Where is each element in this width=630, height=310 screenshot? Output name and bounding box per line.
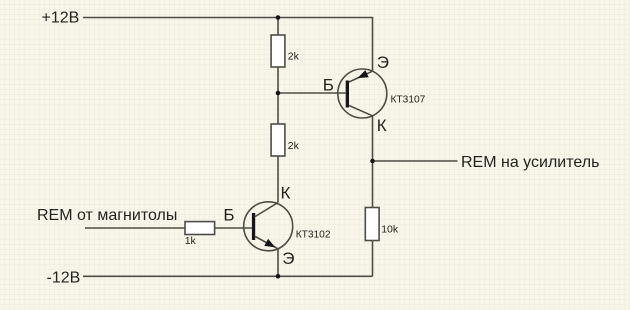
svg-text:REM на усилитель: REM на усилитель [461, 154, 599, 171]
svg-text:Э: Э [377, 53, 389, 72]
wire 10k bottom to -12V rail [372, 241, 374, 277]
wire base of U1 [278, 92, 346, 94]
svg-text:2k: 2k [288, 51, 300, 63]
wire REM input to 1k [85, 227, 185, 229]
svg-text:КТ3102: КТ3102 [296, 230, 331, 241]
resistor R3 1k [185, 222, 215, 247]
wire +12V rail [83, 18, 373, 72]
svg-text:+12В: +12В [42, 10, 80, 27]
svg-text:КТ3107: КТ3107 [391, 95, 426, 106]
svg-text:К: К [281, 183, 291, 202]
resistor R2 2k [271, 124, 300, 156]
svg-text:REM от магнитолы: REM от магнитолы [37, 207, 177, 224]
svg-text:Б: Б [223, 206, 234, 225]
wire R1 bottom to R2 top [277, 67, 279, 124]
wire Q2 emitter to -12V rail [277, 249, 279, 276]
node junction R1/R2/base [276, 91, 281, 96]
node junction emitter / -12V rail [276, 274, 281, 279]
svg-text:Б: Б [323, 76, 334, 95]
wire R2 bottom to Q2 collector [277, 156, 279, 203]
wire -12V rail [83, 275, 373, 277]
svg-text:-12В: -12В [47, 270, 81, 287]
wire REM output [373, 160, 458, 162]
transistor Q1 KT3107 (PNP) [338, 69, 387, 118]
resistor R1 2k [271, 35, 300, 67]
wire R1 top lead [277, 18, 279, 36]
svg-text:2k: 2k [288, 140, 300, 152]
transistor Q2 KT3102 (NPN) [244, 202, 293, 251]
svg-text:Э: Э [282, 249, 294, 268]
resistor R4 10k [365, 208, 399, 241]
svg-text:К: К [377, 116, 387, 135]
svg-text:10k: 10k [381, 223, 399, 235]
wire 1k to base of Q2 [215, 227, 252, 229]
node junction +12V / R1 [276, 15, 281, 20]
node junction REM output [370, 159, 375, 164]
svg-text:1k: 1k [185, 235, 197, 247]
wire Q1 collector down through REM node to 10k [372, 116, 374, 208]
